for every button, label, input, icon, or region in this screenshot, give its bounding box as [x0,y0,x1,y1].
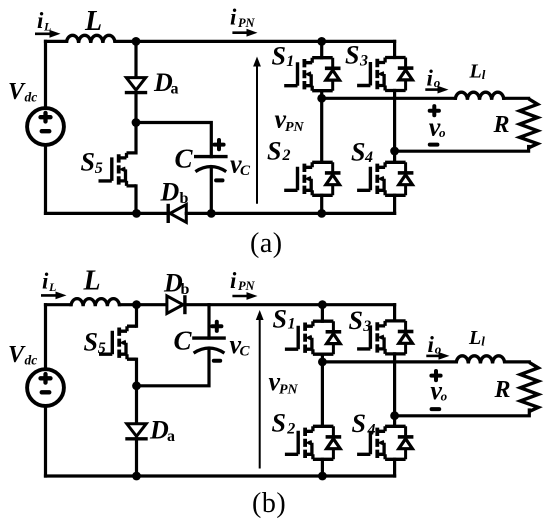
capacitor C (b) [192,338,226,353]
label R (b) [494,377,511,403]
label L (a) [84,6,102,37]
minus cap (a) [216,178,222,182]
svg-text:N: N [287,382,299,397]
wire bottom rail mid (a) [186,212,394,215]
svg-text:1: 1 [288,316,296,333]
node output minus tap (b) [390,411,399,420]
svg-text:dc: dc [25,90,38,105]
plus cap (a) [214,140,223,149]
label io (b) [428,332,442,357]
voltage source Vdc (b) [27,369,64,406]
arrow i_PN (b) [232,292,257,300]
label S3 (b) [349,306,372,335]
label vo (b) [430,376,447,405]
svg-text:(a): (a) [250,228,283,259]
wire R to output minus (b) [395,410,530,416]
node output plus tap (a) [317,94,326,103]
inductor L1 (b) [456,356,505,364]
wire Da to bottom rail (b) [135,439,138,476]
diode Db (b) [167,295,185,314]
label Da (b) [149,416,175,446]
svg-text:l: l [481,334,485,349]
svg-text:S: S [351,138,365,167]
wire node to Da (b) [135,386,138,423]
svg-text:C: C [175,144,194,174]
transistor S5 (a) [99,153,137,186]
svg-text:R: R [494,377,511,403]
wire right leg mid (b) [393,354,396,426]
node output plus tap (b) [318,358,327,367]
svg-text:dc: dc [25,353,38,368]
svg-text:V: V [8,79,26,105]
label vo (a) [429,112,446,141]
svg-text:3: 3 [362,318,371,335]
transistor S2 (b) [285,426,341,459]
label i_L (a) [37,8,51,34]
inductor L1 (a) [455,92,504,100]
wire bottom rail left (a) [46,212,169,215]
label S2 (b) [272,409,296,438]
svg-text:V: V [8,342,26,368]
svg-text:b: b [181,281,190,298]
wire L1 to R (a) [504,97,529,100]
label L1 (a) [469,60,486,82]
diode Da (b) [125,424,147,439]
caption (a) [250,228,283,259]
wire S4 source (a) [393,195,396,213]
svg-text:i: i [230,5,237,30]
label C (a) [175,144,194,174]
capacitor C (a) [194,157,228,172]
svg-text:l: l [482,67,486,82]
label S4 (a) [351,138,373,167]
wire left rail upper (a) [44,41,47,108]
wire S3 drain (a) [393,41,396,57]
label io (a) [427,66,441,91]
label S2 (a) [267,137,291,166]
arrow vPN (a) [253,57,261,204]
wire S5 drain (a) [134,123,137,153]
node bottom rail (b) [132,472,141,481]
svg-text:L: L [469,60,482,82]
node output minus tap (a) [390,147,399,156]
svg-text:S: S [352,409,366,438]
resistor R (a) [520,99,538,148]
label L1 (b) [468,327,485,349]
svg-text:5: 5 [95,160,103,177]
svg-text:4: 4 [367,421,376,438]
label vPN (b) [269,367,299,398]
wire left rail upper (b) [44,305,47,370]
wire left leg mid (b) [321,354,324,426]
wire left rail lower (a) [44,145,47,214]
label vC (a) [230,150,251,180]
arrow i_L (a) [35,30,61,38]
inductor L (b) [71,299,120,307]
node mid junction (a) [132,118,141,127]
wire S5 source (b) [135,359,138,386]
transistor S1 (a) [284,58,340,91]
svg-text:i: i [230,268,237,293]
wire S1 drain (b) [321,305,324,322]
transistor S5 (b) [99,326,137,359]
wire S4 source (b) [393,459,396,476]
wire S2 source (a) [320,195,323,213]
svg-text:N: N [293,120,305,135]
label S4 (b) [352,409,376,438]
wire S1 drain (a) [320,41,323,57]
svg-text:i: i [37,8,44,33]
svg-text:a: a [167,428,175,445]
svg-text:D: D [149,416,169,445]
node L to tap (b) [132,300,141,309]
svg-text:i: i [427,66,434,91]
arrow i_PN (a) [232,29,257,37]
diode Da (a) [125,78,147,93]
transistor S4 (b) [357,426,413,459]
wire left leg mid (a) [320,91,323,163]
node bridge bottom (b) [318,472,327,481]
minus vo (b) [432,407,440,411]
arrow i_L (b) [41,292,67,300]
svg-text:S: S [267,137,281,166]
wire output plus (b) [322,360,456,363]
label Vdc (a) [8,79,37,105]
transistor S3 (b) [357,321,413,354]
arrow vPN (b) [256,310,264,469]
svg-text:D: D [160,178,180,207]
label R (a) [493,112,510,138]
svg-text:C: C [240,163,251,179]
svg-text:S: S [272,42,286,71]
node cap bottom (a) [207,209,216,218]
wire S2 source (b) [321,459,324,476]
svg-text:4: 4 [364,149,373,166]
wire top rail right (a) [115,40,395,43]
label S1 (b) [273,305,296,334]
svg-text:L: L [84,6,102,37]
wire L1 to R (b) [505,360,530,363]
svg-text:a: a [171,81,179,98]
wire left rail lower (b) [44,406,47,476]
node top tap (a) [132,37,141,46]
wire S3 drain (b) [393,305,396,321]
node bridge top (a) [317,37,326,46]
svg-text:R: R [493,112,510,138]
svg-text:C: C [240,344,251,360]
arrow io (b) [426,352,449,360]
svg-text:2: 2 [282,147,291,164]
transistor S3 (a) [357,58,413,91]
svg-text:o: o [441,389,448,404]
svg-text:S: S [272,409,286,438]
wire right leg mid (a) [393,91,396,163]
wire cap branch (b) [207,305,210,338]
wire top rail left (a) [46,40,67,43]
svg-text:3: 3 [359,53,368,70]
label C (b) [174,326,193,356]
svg-text:5: 5 [98,340,106,357]
label i_PN (b) [230,268,256,293]
label vPN (a) [275,105,305,136]
svg-text:S: S [84,328,98,357]
label Db (b) [163,269,190,299]
wire top rail left (b) [46,303,72,306]
wire S5 drain (b) [135,305,138,327]
voltage source Vdc (a) [27,108,64,145]
svg-text:N: N [245,16,256,30]
label S5 (a) [81,148,103,178]
wire Da drain drop (a) [134,41,137,77]
svg-text:i: i [428,332,435,357]
label L (b) [83,266,101,297]
label S1 (a) [272,42,295,71]
label S5 (b) [84,328,106,358]
wire top rail mid (b) [120,303,167,306]
node S5 source rail (a) [132,209,141,218]
label Da (a) [153,68,179,98]
svg-text:(b): (b) [252,488,286,519]
label vC (b) [230,330,251,360]
plus vo (a) [430,106,439,115]
label S3 (a) [345,41,368,70]
resistor R (b) [520,362,538,411]
arrow io (a) [425,86,448,94]
svg-text:L: L [48,280,56,294]
wire Da to node (a) [134,93,137,123]
svg-text:L: L [468,327,481,349]
transistor S4 (a) [357,162,413,195]
minus vo (a) [430,143,438,147]
svg-text:i: i [42,268,49,293]
node S5 source junction (b) [132,381,141,390]
wire S5 source (a) [134,186,137,214]
svg-text:L: L [83,266,101,297]
svg-text:o: o [439,125,446,140]
transistor S2 (a) [284,162,340,195]
label i_PN (a) [230,5,256,30]
wire R to output minus (a) [395,147,529,152]
minus cap (b) [214,359,220,363]
wire output plus (a) [322,97,456,100]
svg-text:S: S [349,306,363,335]
diode Db (a) [168,204,186,223]
svg-text:1: 1 [286,53,294,70]
transistor S1 (b) [285,321,341,354]
plus cap (b) [212,322,221,331]
svg-text:N: N [245,279,256,293]
plus vo (b) [431,371,440,380]
caption (b) [252,488,286,519]
node bridge top (b) [318,300,327,309]
svg-text:S: S [81,148,95,177]
inductor L (a) [67,35,116,43]
svg-text:2: 2 [286,421,295,438]
svg-text:b: b [180,190,189,207]
node bridge bottom (a) [317,209,326,218]
label Vdc (b) [8,342,37,368]
wire node to cap branch (a) [136,123,211,157]
wire top rail right (b) [185,303,395,306]
svg-text:S: S [345,41,359,70]
svg-text:S: S [273,305,287,334]
label Db (a) [160,178,189,208]
wire bottom rail (b) [46,474,395,477]
wire cap to node (b) [137,349,210,386]
label i_L (b) [42,268,56,294]
svg-text:C: C [174,326,193,356]
wire cap to bottom rail (a) [210,167,213,213]
